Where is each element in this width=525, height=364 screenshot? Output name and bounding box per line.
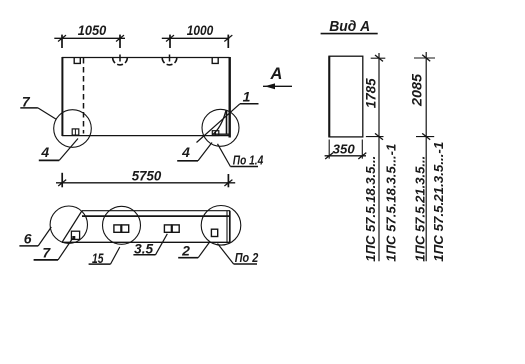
svg-text:1: 1 xyxy=(243,89,251,105)
svg-text:4: 4 xyxy=(181,144,190,160)
svg-text:6: 6 xyxy=(24,230,32,246)
svg-text:Вид А: Вид А xyxy=(329,18,370,35)
svg-text:2: 2 xyxy=(181,242,190,258)
svg-text:1ПС 57.5.18.3.5...: 1ПС 57.5.18.3.5... xyxy=(363,156,378,262)
svg-text:350: 350 xyxy=(333,143,355,157)
svg-text:По 1.4: По 1.4 xyxy=(233,153,264,167)
svg-text:15: 15 xyxy=(92,250,104,266)
svg-text:7: 7 xyxy=(42,245,51,261)
svg-text:1ПС 57.5.21.3.5...: 1ПС 57.5.21.3.5... xyxy=(412,156,427,262)
svg-text:1785: 1785 xyxy=(362,78,378,108)
svg-text:1ПС 57.5.21.3.5...-1: 1ПС 57.5.21.3.5...-1 xyxy=(431,142,446,262)
svg-text:1ПС 57.5.18.3.5...-1: 1ПС 57.5.18.3.5...-1 xyxy=(384,144,399,262)
svg-text:2085: 2085 xyxy=(408,74,424,107)
svg-text:1050: 1050 xyxy=(78,22,107,38)
svg-text:3.5: 3.5 xyxy=(134,242,153,257)
svg-text:По 2: По 2 xyxy=(235,251,259,265)
svg-text:5750: 5750 xyxy=(132,167,162,183)
svg-text:A: A xyxy=(270,65,283,83)
svg-text:1000: 1000 xyxy=(187,22,214,38)
svg-text:7: 7 xyxy=(22,94,31,110)
svg-text:4: 4 xyxy=(40,144,49,160)
